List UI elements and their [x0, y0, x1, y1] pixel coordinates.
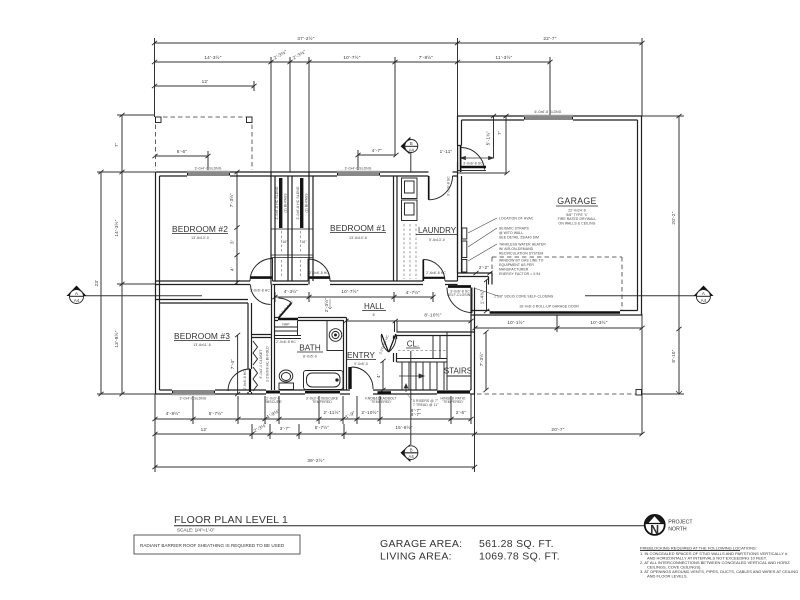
CL left wall and door [394, 336, 397, 363]
bedroom2/1 closet walls [271, 172, 313, 285]
svg-text:W/ AIR-ON-DEMAND: W/ AIR-ON-DEMAND [499, 247, 534, 251]
svg-text:N: N [650, 523, 659, 537]
svg-text:9'-0x5'-0: 9'-0x5'-0 [354, 362, 368, 366]
bedroom1 door [308, 259, 330, 281]
svg-text:3': 3' [230, 240, 235, 244]
svg-text:NORTH: NORTH [668, 527, 687, 533]
CL and stairs top wall [397, 332, 475, 336]
svg-text:6'-6": 6'-6" [177, 149, 188, 154]
svg-text:1069.78 SQ. FT.: 1069.78 SQ. FT. [479, 551, 560, 563]
svg-text:3'-0x6'-8 SC: 3'-0x6'-8 SC [463, 162, 483, 166]
bath / entry wall [344, 318, 347, 391]
svg-text:2'-6": 2'-6" [456, 410, 467, 415]
bottom dim row 3: 39'-2 1/2 [155, 466, 475, 468]
svg-text:4'-8½": 4'-8½" [166, 410, 181, 416]
svg-text:LAUNDRY: LAUNDRY [418, 226, 457, 235]
svg-text:4'-7": 4'-7" [372, 148, 383, 153]
svg-text:8'-7": 8'-7" [411, 408, 422, 413]
svg-text:STAIRS: STAIRS [444, 367, 472, 376]
svg-text:16": 16" [301, 240, 307, 244]
closet sliding door panels [279, 178, 282, 228]
svg-text:2'-0x6'-8 HC SLDNG: 2'-0x6'-8 HC SLDNG [275, 186, 279, 219]
svg-text:2'-3½": 2'-3½" [323, 298, 329, 313]
vestibule door arc below bedroom2 door [251, 285, 271, 305]
room label laundry [416, 226, 458, 242]
svg-text:LIVING AREA:: LIVING AREA: [380, 551, 452, 563]
svg-text:2'-0x6'-8 HC SLDNG: 2'-0x6'-8 HC SLDNG [296, 186, 300, 219]
front entry door [348, 367, 396, 404]
svg-text:PROJECT: PROJECT [668, 520, 693, 526]
hall bottom / bath top wall [275, 318, 347, 321]
svg-text:CL.: CL. [407, 340, 419, 349]
svg-text:37'-2½": 37'-2½" [297, 35, 314, 41]
bedrooms bottom wall / hall top wall [156, 281, 458, 285]
svg-text:10'-1½": 10'-1½" [507, 319, 524, 325]
svg-text:1'-4¾": 1'-4¾" [480, 290, 485, 305]
garage door note with leader [474, 288, 554, 299]
svg-text:4': 4' [376, 374, 381, 378]
svg-text:A: A [75, 291, 78, 296]
svg-text:1'-11": 1'-11" [440, 149, 453, 154]
svg-text:13'-6x10'-6: 13'-6x10'-6 [349, 236, 367, 240]
area table [380, 538, 560, 563]
svg-text:13'-6x11'-6: 13'-6x11'-6 [193, 343, 210, 347]
svg-text:561.28 SQ. FT.: 561.28 SQ. FT. [479, 538, 554, 550]
garage door track dashed [492, 257, 622, 310]
svg-text:7'-4": 7'-4" [230, 359, 235, 370]
garage window [524, 110, 573, 118]
svg-text:16'-0x8'-0 ROLL-UP GARAGE DOOR: 16'-0x8'-0 ROLL-UP GARAGE DOOR [519, 305, 579, 309]
svg-text:2'-6x6'-8 HC: 2'-6x6'-8 HC [426, 271, 446, 275]
svg-text:A4: A4 [409, 454, 415, 459]
svg-text:7'-3½": 7'-3½" [478, 352, 484, 367]
dim 8'-10 1/2 entry soffit line [347, 320, 472, 322]
hvac and water heater units [462, 228, 467, 272]
house bottom wall [156, 390, 475, 394]
svg-text:5'-1¾": 5'-1¾" [486, 131, 491, 146]
entry right / stairs right wall [471, 288, 475, 395]
right outer dim 20'-2 / 8'-10 [678, 116, 680, 394]
svg-text:16": 16" [282, 240, 288, 244]
svg-text:20'-7": 20'-7" [551, 427, 564, 432]
svg-text:SEISMIC STRAPS: SEISMIC STRAPS [499, 227, 529, 231]
svg-text:6': 6' [373, 313, 376, 317]
project north symbol [645, 515, 694, 537]
toilet [279, 370, 294, 390]
laundry-garage door [458, 146, 510, 175]
left outer dim 23' [100, 172, 102, 394]
svg-text:10'-3½": 10'-3½" [590, 319, 607, 325]
svg-text:7 TREAD @ 11": 7 TREAD @ 11" [413, 403, 439, 407]
laundry door to hall [423, 260, 446, 282]
svg-text:8'-10½": 8'-10½" [424, 312, 441, 318]
bath window 1 [264, 392, 282, 404]
bedroom2 interior dim column [236, 172, 238, 284]
svg-text:5'-7½": 5'-7½" [209, 410, 224, 416]
svg-text:B: B [410, 141, 413, 146]
room label bedroom3 [174, 331, 230, 347]
svg-text:12': 12' [201, 427, 208, 432]
svg-text:MANUFACTURER: MANUFACTURER [499, 268, 529, 272]
bedroom3 door [228, 369, 250, 392]
patio right boundary line [641, 314, 643, 434]
room label garage [556, 196, 598, 225]
svg-text:TEMPERED: TEMPERED [312, 400, 332, 404]
section marker B bottom [400, 351, 418, 462]
svg-text:A: A [702, 291, 705, 296]
room label entry [346, 350, 376, 366]
svg-text:ENTRY: ENTRY [347, 350, 375, 360]
fireblocking notes [640, 546, 798, 579]
svg-text:TANKLESS WATER HEATER: TANKLESS WATER HEATER [499, 243, 546, 247]
svg-text:B: B [410, 447, 413, 452]
room label CL [406, 340, 420, 349]
svg-text:20'-2": 20'-2" [671, 211, 676, 224]
closet rods dashed [282, 231, 301, 278]
bedroom2 window [187, 167, 230, 175]
svg-text:22'-7": 22'-7" [543, 36, 556, 41]
svg-text:2'-0x6'-8 HC: 2'-0x6'-8 HC [276, 340, 296, 344]
svg-text:OBSCURE: OBSCURE [264, 400, 282, 404]
garage right wall [638, 116, 642, 315]
svg-text:3'-0x4'-0 SLDNG: 3'-0x4'-0 SLDNG [180, 397, 207, 401]
svg-text:3'-7": 3'-7" [280, 426, 291, 431]
room label bedroom2 [172, 224, 228, 240]
bath left wall [272, 285, 275, 391]
svg-text:6'-0x6'-8 SLDNG: 6'-0x6'-8 SLDNG [535, 110, 562, 114]
laundry right wall (shared with garage) [457, 162, 459, 281]
svg-text:4': 4' [230, 267, 235, 271]
hall dim row [275, 292, 433, 302]
section marker A-A right [585, 286, 714, 304]
svg-text:ENERGY FACTOR = 0.94: ENERGY FACTOR = 0.94 [499, 272, 540, 276]
svg-text:FIREBLOCKING REQUIRED AT THE F: FIREBLOCKING REQUIRED AT THE FOLLOWING L… [640, 546, 757, 551]
lower patio dashed roof line [477, 393, 636, 395]
bedroom2 door [250, 259, 273, 293]
bedroom1 window [337, 167, 380, 175]
svg-text:A4: A4 [701, 298, 707, 303]
svg-text:3'-0x4'-0 SLDNG: 3'-0x4'-0 SLDNG [345, 167, 372, 171]
svg-text:1 3/8" SOLID CORE SELF-CLOSING: 1 3/8" SOLID CORE SELF-CLOSING [494, 295, 554, 299]
garage left wall with door to garage [458, 116, 462, 273]
entry-garage door [447, 287, 473, 313]
dim 2'-2 garage corner [476, 272, 490, 274]
stairs direction arrows [399, 374, 424, 378]
left dim 7' / 14'-3.5 / 13'-8.5 [121, 115, 123, 394]
room label hall [362, 302, 386, 317]
bottom dim row 2 [155, 394, 642, 472]
svg-text:RECIRCULATION SYSTEM: RECIRCULATION SYSTEM [499, 252, 543, 256]
bedroom3 window [172, 392, 215, 401]
svg-text:BEDROOM #3: BEDROOM #3 [174, 331, 230, 341]
svg-text:AND FLOOR LEVELS.: AND FLOOR LEVELS. [647, 574, 688, 579]
svg-text:4'-3½": 4'-3½" [284, 288, 299, 294]
stairs lower treads [402, 362, 447, 390]
section marker B top [401, 137, 418, 172]
stairs landing line [447, 375, 471, 377]
svg-text:7': 7' [497, 131, 502, 135]
vanity and sink [327, 321, 344, 351]
room label bath [297, 343, 323, 359]
bath linen closet [275, 321, 301, 339]
svg-text:WINDOW BY GAS LINE TO: WINDOW BY GAS LINE TO [499, 259, 544, 263]
room label bedroom1 [330, 223, 386, 240]
stairs upper treads [433, 332, 447, 362]
svg-text:(2) BI-PASS: (2) BI-PASS [284, 193, 288, 213]
bottom dim row 1 [155, 394, 471, 472]
svg-text:10'-7½": 10'-7½" [343, 54, 360, 60]
svg-text:14'-3½": 14'-3½" [204, 54, 221, 60]
svg-text:5'-7½": 5'-7½" [315, 424, 330, 430]
svg-text:2'-6x6'-8 HC: 2'-6x6'-8 HC [243, 370, 247, 390]
bedroom3 right wall (corridor left wall) with door [248, 303, 252, 394]
svg-text:ON WALLS & CEILING: ON WALLS & CEILING [559, 221, 596, 225]
svg-text:BEDROOM #2: BEDROOM #2 [172, 224, 228, 234]
tub [304, 371, 344, 390]
svg-text:15'-8½": 15'-8½" [395, 424, 412, 430]
svg-text:2'-11½": 2'-11½" [324, 409, 341, 415]
svg-text:2'-2": 2'-2" [479, 265, 490, 270]
bedroom3 closet [252, 335, 272, 338]
svg-text:11'-3½": 11'-3½" [496, 54, 513, 60]
svg-text:39'-2½": 39'-2½" [307, 457, 324, 463]
svg-text:2'-10½": 2'-10½" [361, 409, 378, 415]
svg-text:'TEMPERED': 'TEMPERED' [370, 400, 391, 404]
svg-text:GARAGE: GARAGE [557, 196, 596, 206]
top dim row 2: 14'-3.5 / 2'-3.5 / 2'-3.5 / 10'-7.5 / 7'-8.5 / 11'-3.5 [155, 57, 551, 172]
svg-text:2'-6x6'-8 HC: 2'-6x6'-8 HC [250, 289, 270, 293]
garage notes with leaders [468, 217, 546, 277]
svg-text:14'-3½": 14'-3½" [113, 219, 119, 236]
washer dryer [402, 178, 418, 221]
bath entry door [278, 298, 298, 319]
dim 12' row [155, 85, 255, 87]
dimension framework [94, 35, 684, 472]
title: floor plan level 1 [174, 514, 644, 533]
laundry left wall [394, 176, 398, 281]
dim 4'-7 to bedroom1 window [358, 154, 396, 156]
svg-text:8'-0x5'-0: 8'-0x5'-0 [303, 355, 317, 359]
svg-text:5'-6x13'-0: 5'-6x13'-0 [429, 238, 445, 242]
svg-text:SELF-CLOSING: SELF-CLOSING [447, 293, 473, 297]
svg-text:GARAGE AREA:: GARAGE AREA: [380, 538, 462, 550]
svg-text:8'-10": 8'-10" [671, 349, 676, 362]
svg-text:7': 7' [114, 143, 119, 147]
svg-text:5'-0x2'-0 CLOSET: 5'-0x2'-0 CLOSET [259, 350, 263, 379]
svg-text:NAP: NAP [282, 323, 290, 327]
top dim row 1: 37'-2 1/2 and 22'-7 [155, 38, 643, 117]
garage interior dims 5' / 7' [493, 116, 495, 158]
svg-text:7'-3½": 7'-3½" [228, 193, 234, 208]
svg-text:SEE DETAIL 25/A40 SIM: SEE DETAIL 25/A40 SIM [499, 236, 539, 240]
svg-text:RADIANT BARRIER ROOF SHEATHING: RADIANT BARRIER ROOF SHEATHING IS REQUIR… [140, 543, 285, 548]
svg-text:2'-6x6'-8 HC: 2'-6x6'-8 HC [309, 271, 329, 275]
svg-text:13'-6x13'-0: 13'-6x13'-0 [191, 236, 209, 240]
svg-text:10'-7½": 10'-7½" [341, 288, 358, 294]
svg-text:12': 12' [202, 79, 209, 84]
svg-text:@ W/TO WALL: @ W/TO WALL [499, 231, 523, 235]
right lower dim row: 10'-1.5 / 10'-3.5 [475, 315, 642, 332]
svg-text:SCALE: 1/4"=1'-0": SCALE: 1/4"=1'-0" [177, 528, 215, 533]
svg-text:FLOOR PLAN LEVEL 1: FLOOR PLAN LEVEL 1 [174, 514, 288, 526]
bedroom3 top wall [156, 300, 249, 304]
svg-text:BATH: BATH [299, 343, 321, 353]
svg-text:2-2'6x6'8 HC BI-FOLD: 2-2'6x6'8 HC BI-FOLD [266, 346, 270, 382]
svg-text:A4: A4 [74, 298, 80, 303]
dim 7'-3.5 stairs right [485, 332, 487, 390]
svg-text:A4: A4 [409, 147, 415, 152]
dim 6'-6 to bedroom2 window [155, 155, 208, 157]
rear patio door at stairs [437, 392, 470, 404]
laundry rear door [429, 176, 453, 200]
bath window 2 [305, 392, 340, 404]
svg-text:13'-8½": 13'-8½" [113, 330, 119, 347]
svg-text:LOCATION OF HVAC: LOCATION OF HVAC [499, 217, 534, 221]
svg-text:7'-8½": 7'-8½" [419, 54, 434, 60]
svg-text:EQUIPMENT AS PER: EQUIPMENT AS PER [499, 263, 534, 267]
bedroom3 interior dim column 7'-4 [237, 335, 239, 394]
house left wall [156, 172, 160, 394]
radiant barrier note box [134, 535, 300, 554]
house top wall [156, 172, 458, 176]
svg-text:HALL: HALL [364, 302, 385, 311]
garage corner walls at entry door [458, 273, 493, 285]
svg-text:(2) BI-PASS: (2) BI-PASS [305, 193, 309, 213]
rear patio dashed outline [156, 117, 253, 170]
svg-text:'TEMPERED': 'TEMPERED' [442, 400, 463, 404]
svg-text:3'-0x6'-8 SC: 3'-0x6'-8 SC [447, 176, 451, 196]
garage bottom wall and roll-up door [471, 311, 642, 316]
section marker A-A left [67, 286, 203, 304]
garage top wall [458, 116, 642, 120]
svg-text:BEDROOM #1: BEDROOM #1 [330, 223, 386, 233]
svg-text:23': 23' [94, 280, 99, 287]
svg-text:3'-0x4'-0 SLDNG: 3'-0x4'-0 SLDNG [195, 167, 222, 171]
dim 4' entry closet [382, 361, 384, 390]
CL shelf and divider [397, 359, 448, 363]
svg-text:4'-7½": 4'-7½" [406, 289, 421, 295]
